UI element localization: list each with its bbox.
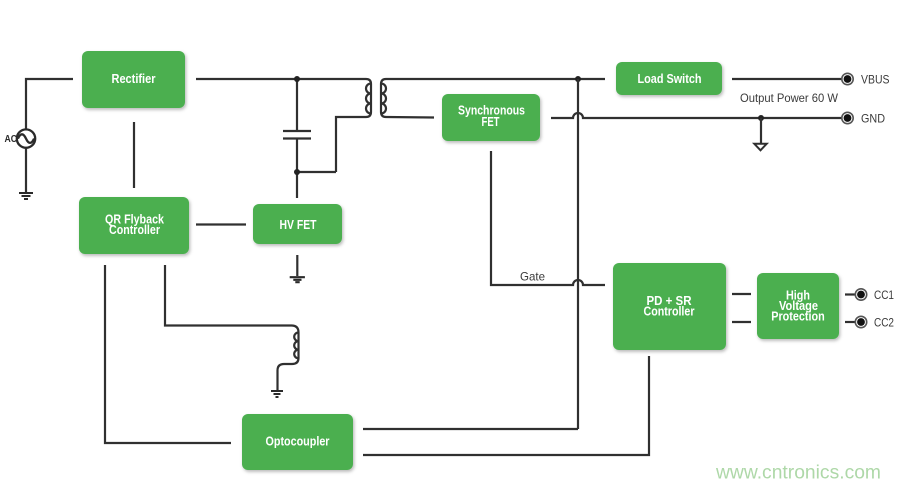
wire W7 vertical from node J3 down to optocoupler feedback rail (577, 79, 579, 429)
transformer T1 secondary winding bumps (381, 84, 386, 114)
svg-text:GND: GND (861, 112, 885, 126)
block Load Switch (616, 62, 722, 95)
svg-text:Optocoupler: Optocoupler (266, 434, 330, 449)
svg-text:Controller: Controller (109, 222, 160, 237)
wire W8 GND rail with hop over vertical (551, 113, 842, 118)
AC source V1 (17, 129, 35, 147)
wire W18 Optocoupler to PD+SR bottom (363, 356, 649, 455)
svg-text:Rectifier: Rectifier (112, 71, 156, 86)
wire W17 Optocoupler to vertical feedback rail (363, 428, 578, 430)
wire W13 Rectifier to QR Flyback Controller (133, 122, 135, 188)
svg-text:Controller: Controller (644, 304, 695, 319)
svg-text:Output Power 60 W: Output Power 60 W (740, 91, 839, 105)
wire W15 QR controller to auxiliary inductor (165, 265, 299, 390)
wire W11 stub below GND junction (760, 118, 762, 144)
svg-text:HV FET: HV FET (280, 217, 317, 232)
wire W6 Load Switch to VBUS (732, 78, 842, 80)
block Rectifier (82, 51, 185, 108)
block QR Flyback Controller (79, 197, 189, 254)
svg-text:CC2: CC2 (874, 316, 894, 330)
transformer T1 secondary winding with leads (381, 79, 605, 118)
wire W19a PD+SR to High Voltage Protection upper (732, 293, 751, 295)
transformer T1 primary winding bumps (366, 84, 371, 114)
wire W16 QR Flyback Controller to HV FET (196, 223, 246, 225)
wire W10 gate wire from Synchronous FET to PD+SR with hop (491, 151, 605, 285)
block HV FET (253, 204, 342, 244)
inductor L1 winding (294, 333, 298, 359)
capacitor C1 plates (283, 131, 311, 139)
wire W19b PD+SR to High Voltage Protection lower (732, 321, 751, 323)
terminal CC2 (855, 316, 866, 327)
svg-text:FET: FET (482, 114, 500, 129)
wire W21 AC source to earth ground (25, 149, 27, 193)
block Optocoupler (242, 414, 353, 470)
wire W20a CC1 stub (845, 293, 855, 295)
wire W4 capacitor branch vertical (296, 79, 298, 198)
block Synchronous FET (442, 94, 540, 141)
node J3 junction dot top rail (575, 76, 581, 82)
svg-text:AC: AC (5, 134, 18, 145)
svg-text:Protection: Protection (771, 309, 825, 324)
wire W2 Rectifier output to transformer primary top (196, 79, 371, 172)
svg-text:CC1: CC1 (874, 288, 894, 302)
node J2 junction dot at cap bottom (294, 169, 300, 175)
ground G1 earth symbol under AC source (19, 193, 33, 199)
wire W20b CC2 stub (845, 321, 855, 323)
ground G4 earth symbol under inductor (271, 391, 283, 397)
svg-text:VBUS: VBUS (861, 73, 890, 87)
node J1 junction dot at cap top (294, 76, 300, 82)
wire W14 QR controller to Optocoupler left (105, 265, 231, 443)
terminal GND (842, 112, 853, 123)
terminal CC1 (855, 289, 866, 300)
wire W12 HV FET source stub (296, 255, 298, 276)
svg-text:www.cntronics.com: www.cntronics.com (715, 463, 881, 484)
terminal VBUS (842, 73, 853, 84)
block High Voltage Protection (757, 273, 839, 339)
wire W4b cap bottom to elbow (297, 171, 336, 173)
block PD + SR Controller (613, 263, 726, 350)
svg-text:Load Switch: Load Switch (638, 71, 702, 86)
ground G3 earth symbol under HV FET (290, 277, 305, 282)
svg-text:Gate: Gate (520, 270, 545, 284)
ground G2 open arrow under GND rail (754, 144, 766, 151)
node J4 junction dot GND rail (758, 115, 764, 121)
wire W1 AC source to Rectifier (26, 79, 73, 130)
